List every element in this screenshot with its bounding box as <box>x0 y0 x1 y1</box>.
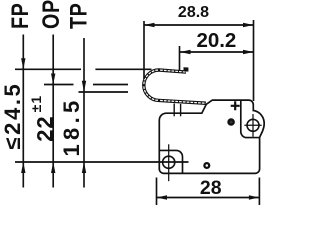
svg-text:FP: FP <box>6 3 33 29</box>
dimension line TP vertical <box>83 38 85 162</box>
dimension 28 <box>157 197 260 199</box>
extension line bottom right <box>258 178 260 206</box>
switch body outline <box>159 100 264 173</box>
boss top-right <box>241 101 260 138</box>
arrow OP down <box>51 74 55 85</box>
mounting hole top-right <box>247 119 259 131</box>
svg-text:≤24.5: ≤24.5 <box>0 82 25 150</box>
svg-text:TP: TP <box>65 3 92 29</box>
level line TP <box>79 91 129 93</box>
boss bottom-left <box>159 150 182 173</box>
arrow TP up at baseline <box>82 162 86 173</box>
extension line bottom left <box>156 178 158 206</box>
level line FP right segment <box>95 68 151 70</box>
mounting hole bottom-left <box>163 156 175 168</box>
lever spring curl outer <box>143 69 159 102</box>
level line OP right segment <box>93 84 128 86</box>
plus mark <box>231 101 240 110</box>
rivet dot upper <box>229 119 234 124</box>
arrow OP up at baseline <box>51 162 55 173</box>
rivet dot lower <box>204 163 209 168</box>
baseline mounting plane <box>15 161 189 163</box>
level line FP left segment <box>15 68 81 70</box>
arrow FP down <box>21 58 25 69</box>
plunger pin <box>173 104 175 117</box>
svg-text:OP: OP <box>37 0 64 29</box>
arrow FP up at baseline <box>21 162 25 173</box>
dimension line FP vertical <box>22 35 24 163</box>
dimension 28.8 <box>144 24 254 26</box>
level line OP left segment <box>44 84 74 86</box>
lever spring hatch ticks <box>159 70 206 103</box>
extension line lever tip <box>143 21 145 79</box>
extension line plunger <box>179 46 181 71</box>
arrow TP down <box>82 81 86 92</box>
extension line body right <box>253 20 255 101</box>
svg-text:28: 28 <box>200 177 222 199</box>
lever spring curl inner <box>145 71 159 99</box>
lever spring top arm outer lines <box>159 69 186 71</box>
dimension 20.2 <box>180 51 254 53</box>
lever spring bottom arm outer lines <box>159 99 206 102</box>
svg-text:28.8: 28.8 <box>178 4 209 21</box>
svg-text:20.2: 20.2 <box>196 29 236 52</box>
lever end tab <box>184 67 189 71</box>
svg-text:18.5: 18.5 <box>59 96 84 156</box>
dimension line OP vertical <box>52 35 54 163</box>
